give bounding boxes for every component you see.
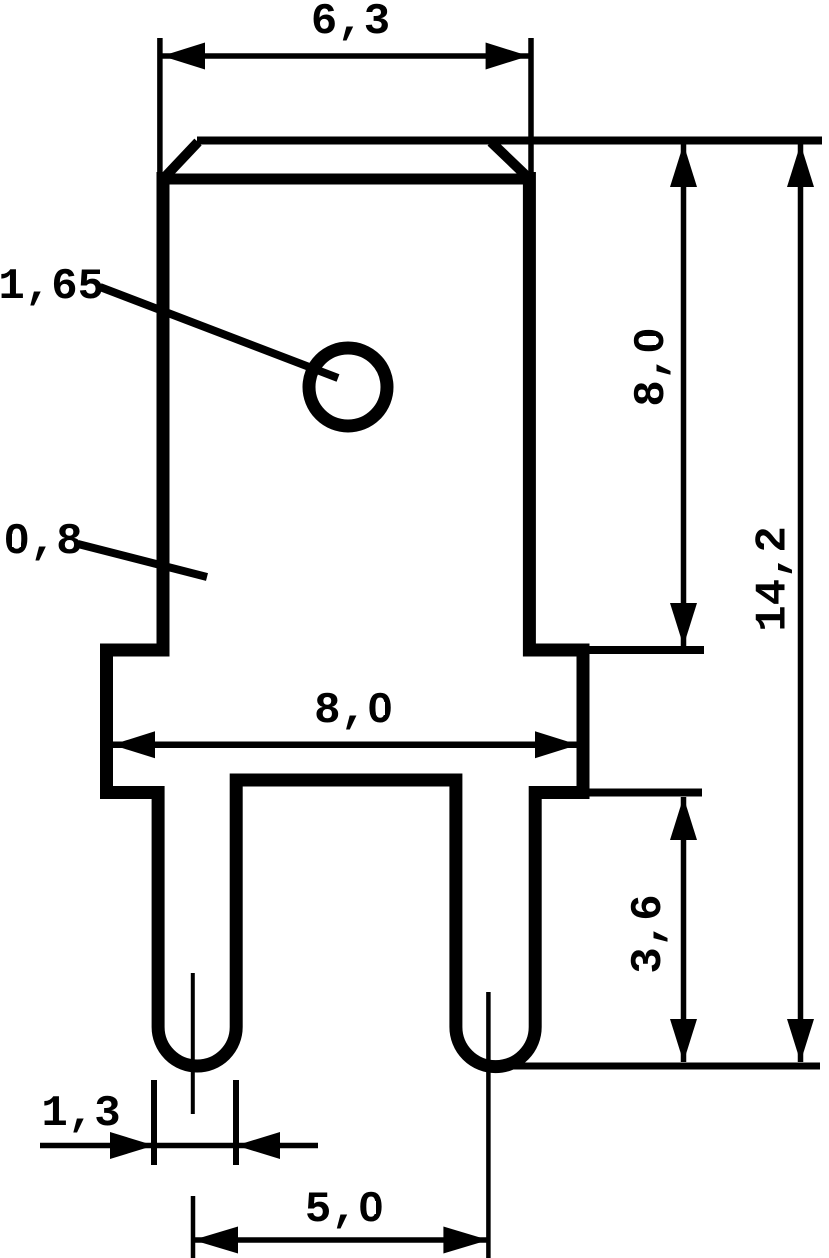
right leg center line (also 5,0 ext) [486, 992, 491, 1258]
svg-text:3,6: 3,6 [624, 894, 674, 973]
dimension text 1,3 [41, 1089, 120, 1139]
svg-text:14,2: 14,2 [749, 526, 799, 632]
top bevel edge of tab with extension line for 14,2 [197, 137, 822, 145]
dimension 5,0 line [193, 1227, 488, 1254]
svg-text:6,3: 6,3 [311, 0, 390, 47]
white-out of dotted-zero centers (target font has plain zeros) [12, 336, 656, 1214]
right lower step extension line (3,6 top ref) [583, 789, 702, 797]
dimension 6,3 line [162, 43, 529, 70]
dimension 1,3 line with outside arrows [40, 1132, 318, 1159]
svg-text:1,65: 1,65 [0, 262, 104, 312]
svg-text:1,3: 1,3 [41, 1089, 120, 1139]
dimension text 3,6 (rotated) [624, 894, 674, 973]
leader line for 1,65 [100, 287, 338, 378]
tab body outline with shoulders and two legs [107, 172, 584, 1067]
leader line for 0,8 [78, 544, 207, 577]
left leg center line [191, 973, 195, 1114]
dimension 1,3 extension line right [233, 1080, 239, 1165]
dimension 14,2 line [787, 144, 814, 1062]
label 1,65 [0, 262, 104, 312]
hole (1,65 dia) [309, 348, 387, 426]
bevel right slant [491, 142, 529, 178]
dimension 1,3 extension line left [151, 1080, 157, 1165]
dimension text 14,2 (rotated) [749, 526, 799, 632]
bottom reference extension line [500, 1063, 820, 1070]
bevel left slant [164, 142, 198, 178]
dimension 5,0 extension line left [191, 1196, 196, 1258]
dimension 8,0 (shoulder width) line [112, 731, 578, 758]
dimension 6,3 extension line right [528, 38, 534, 208]
dimension text 5,0 [305, 1185, 384, 1235]
dimension 3,6 line [670, 797, 697, 1062]
bevel front edge (trapezoid bottom) [160, 174, 532, 185]
label 0,8 [4, 517, 83, 567]
dimension text 6,3 [311, 0, 390, 47]
dimension 8,0 (height) line [670, 144, 697, 646]
dimension text 8,0 (shoulder width) [314, 686, 393, 736]
dimension 6,3 extension line left [157, 38, 163, 178]
dimension text 8,0 (height, rotated) [627, 327, 677, 406]
right step extension line (8,0 bottom ref) [583, 646, 704, 654]
